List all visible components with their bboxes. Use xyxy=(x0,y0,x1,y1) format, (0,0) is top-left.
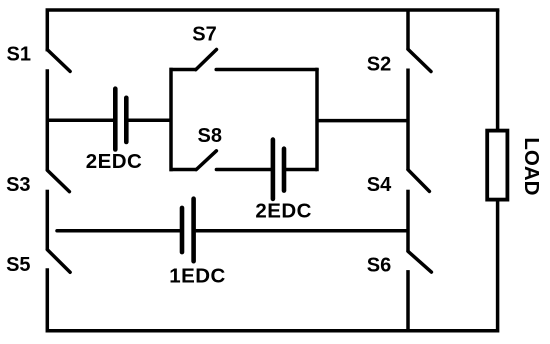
battery B1 2EDC short plate xyxy=(124,98,129,142)
svg-text:S5: S5 xyxy=(6,254,30,276)
switch S4 xyxy=(408,170,429,192)
wire row2 left xyxy=(57,229,180,233)
wire subcircuit right rail xyxy=(315,70,319,170)
svg-text:S6: S6 xyxy=(367,254,391,276)
wire S7 left contact xyxy=(170,68,197,72)
svg-text:S8: S8 xyxy=(198,125,222,147)
svg-text:S3: S3 xyxy=(6,174,30,196)
wire row2 right xyxy=(196,229,408,233)
switch S6 xyxy=(408,251,431,272)
switch S7 xyxy=(196,50,217,70)
wire S8 right contact xyxy=(216,168,271,172)
svg-text:S7: S7 xyxy=(192,24,216,46)
wire S7 right contact xyxy=(216,68,317,72)
battery B1 2EDC long plate xyxy=(113,89,118,150)
switch S8 xyxy=(196,151,216,170)
wire top rail xyxy=(47,10,497,50)
switch S5 xyxy=(47,250,70,273)
wire middle rail S2-S4 xyxy=(406,69,410,170)
svg-text:1EDC: 1EDC xyxy=(169,264,225,287)
wire row1 right xyxy=(317,119,408,123)
svg-text:LOAD: LOAD xyxy=(520,137,543,195)
wire row1 mid xyxy=(128,119,171,123)
wire right rail lower xyxy=(47,200,497,331)
battery B3 1EDC short plate xyxy=(180,208,185,252)
svg-text:2EDC: 2EDC xyxy=(255,199,311,222)
wire S8 left contact xyxy=(170,168,197,172)
switch S2 xyxy=(408,49,431,71)
svg-text:S2: S2 xyxy=(367,54,391,76)
switch S3 xyxy=(47,170,69,191)
wire row1 left xyxy=(47,119,113,123)
battery B2 2EDC short plate xyxy=(282,149,287,191)
battery B3 1EDC long plate xyxy=(191,199,196,262)
wire subcircuit left rail xyxy=(169,70,173,170)
wire right rail upper xyxy=(496,10,500,130)
wire B2 to right rail xyxy=(286,168,317,172)
wire left rail S1-S3 xyxy=(46,69,50,170)
svg-text:2EDC: 2EDC xyxy=(86,150,142,173)
switch S1 xyxy=(47,50,70,72)
svg-text:S1: S1 xyxy=(7,44,31,66)
wire middle rail S4-S6 xyxy=(406,190,410,252)
resistor LOAD body xyxy=(487,131,507,200)
battery B2 2EDC long plate xyxy=(271,140,276,199)
svg-text:S4: S4 xyxy=(367,174,392,196)
wire left rail S3-S5 xyxy=(46,190,50,250)
wire middle rail top stub xyxy=(406,10,410,49)
wire middle rail bottom xyxy=(406,270,410,331)
